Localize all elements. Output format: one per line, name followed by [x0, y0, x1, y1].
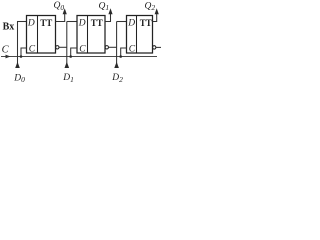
wire bubble U3 output	[156, 46, 161, 48]
wire clock to C input of U3	[121, 48, 127, 57]
svg-text:TT: TT	[91, 18, 103, 28]
wire Q output of U1 up	[56, 14, 65, 22]
wire Bx to D input of U1	[17, 21, 27, 23]
svg-text:D: D	[127, 19, 135, 29]
arrow D0	[15, 62, 20, 68]
wire clock to C input of U1	[21, 48, 27, 57]
U1 divider	[37, 16, 39, 54]
junction dot U1 clock	[20, 55, 23, 58]
svg-text:D: D	[27, 19, 35, 29]
wire bubble U2 to node D2	[109, 46, 117, 48]
flip-flop U2 box	[77, 16, 105, 54]
U2 divider	[87, 16, 89, 54]
svg-text:D: D	[78, 19, 86, 29]
svg-text:Q2: Q2	[145, 1, 156, 12]
U3 divider	[136, 16, 138, 54]
svg-text:D1: D1	[62, 73, 74, 84]
arrow Q2	[155, 8, 159, 14]
node D0 vertical (Bx / D0 / D input of U1)	[17, 22, 19, 68]
flip-flop U1 box	[27, 16, 56, 54]
svg-text:Q0: Q0	[54, 1, 65, 12]
flip-flop U3 box	[127, 16, 153, 54]
arrow Q1	[108, 8, 112, 14]
wire Q output of U3 up	[153, 14, 157, 22]
wire bubble U1 to node D1	[59, 46, 67, 48]
svg-text:D2: D2	[111, 73, 123, 84]
wire node D1 to D input of U2	[67, 21, 77, 23]
svg-text:C: C	[79, 45, 86, 55]
svg-text:Bx: Bx	[3, 22, 15, 33]
arrow D2	[114, 62, 119, 68]
wire Q output of U2 up	[105, 14, 111, 22]
svg-text:C: C	[29, 45, 36, 55]
node D2 vertical (to D input of U3)	[116, 22, 118, 68]
node D1 vertical (to D input of U2)	[66, 22, 68, 68]
junction dot U3 clock	[119, 55, 122, 58]
svg-text:C: C	[2, 44, 10, 55]
svg-text:D0: D0	[13, 73, 25, 84]
clock line C (horizontal bus at bottom)	[1, 56, 157, 58]
inverted output bubble U3	[153, 46, 156, 49]
wire node D2 to D input of U3	[117, 21, 127, 23]
clock input arrowhead	[6, 55, 11, 59]
arrow D1	[65, 62, 70, 68]
svg-text:Q1: Q1	[99, 1, 110, 12]
svg-text:TT: TT	[40, 18, 52, 28]
svg-text:C: C	[129, 45, 136, 55]
inverted output bubble U1	[56, 46, 59, 49]
arrow Q0	[63, 8, 67, 14]
inverted output bubble U2	[105, 46, 108, 49]
junction dot U2 clock	[69, 55, 72, 58]
svg-text:TT: TT	[140, 18, 152, 28]
wire clock to C input of U2	[71, 48, 77, 57]
